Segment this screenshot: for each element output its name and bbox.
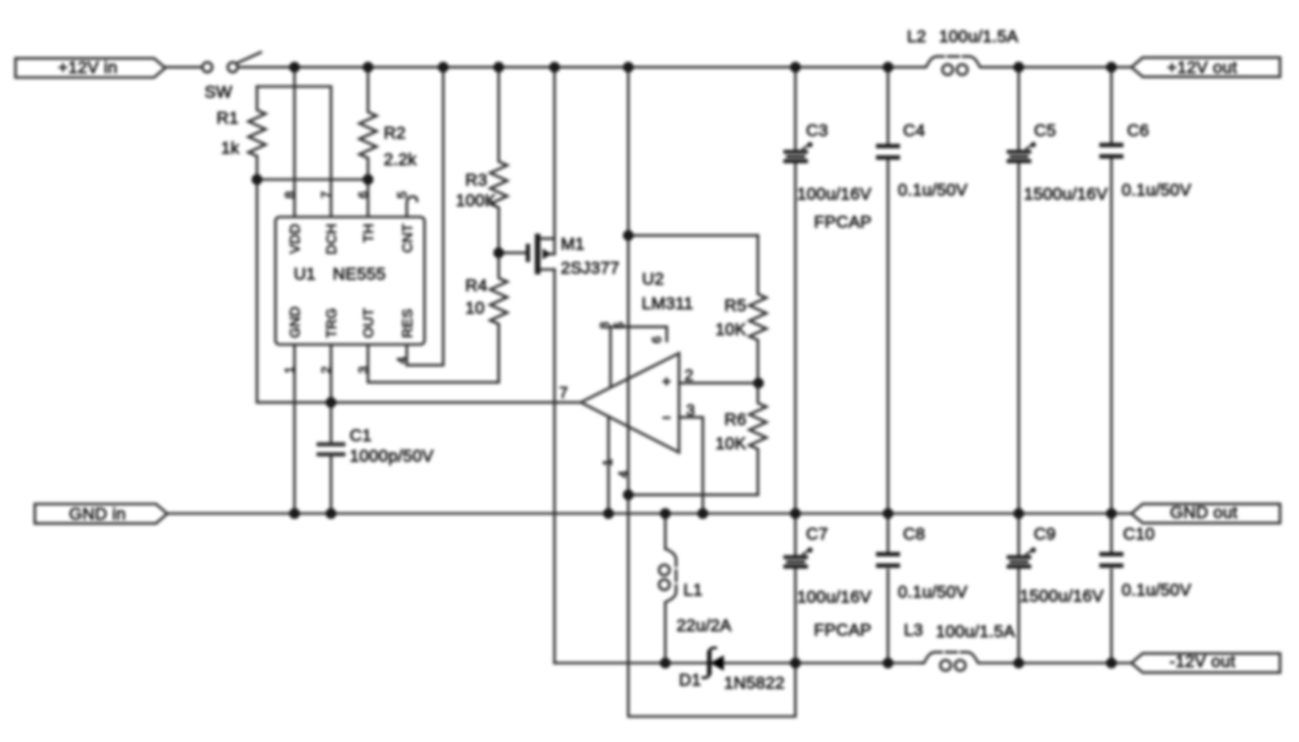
wire R5 top xyxy=(628,234,758,237)
wire R1 bottom down to trigger line xyxy=(257,180,581,403)
pin5 CNT hook xyxy=(407,197,417,218)
op-amp pin3 wire to GND xyxy=(679,417,703,513)
wire pin3 OUT to R4 bottom xyxy=(368,325,499,382)
svg-text:5: 5 xyxy=(394,191,409,198)
svg-text:U1: U1 xyxy=(294,265,316,284)
op-amp V+ / V- vertical (top rail to -12V loop) xyxy=(628,67,795,716)
capacitor C5 column xyxy=(1017,67,1020,150)
connector -12V out xyxy=(1131,653,1280,672)
junction dot R6 bottom xyxy=(623,489,634,500)
svg-text:10K: 10K xyxy=(715,434,746,453)
svg-text:1: 1 xyxy=(282,366,297,373)
capacitor C6 plates xyxy=(1099,143,1123,147)
svg-text:1000p/50V: 1000p/50V xyxy=(350,447,435,466)
svg-text:22u/2A: 22u/2A xyxy=(677,616,733,635)
svg-text:C4: C4 xyxy=(903,121,925,140)
svg-text:TRG: TRG xyxy=(323,308,339,338)
inductor L2 xyxy=(924,56,980,67)
capacitor C7 plates (FPCAP) xyxy=(783,555,808,559)
wire pin8 VDD column xyxy=(293,67,296,217)
svg-text:8: 8 xyxy=(282,191,297,198)
svg-text:FPCAP: FPCAP xyxy=(814,621,872,640)
svg-text:0.1u/50V: 0.1u/50V xyxy=(898,583,968,602)
wire R6 bottom xyxy=(628,493,758,496)
IC U1 NE555 body xyxy=(276,217,425,345)
diode D1 xyxy=(707,653,711,674)
svg-text:1500u/16V: 1500u/16V xyxy=(1020,587,1105,606)
svg-text:5: 5 xyxy=(612,322,627,329)
svg-text:0.1u/50V: 0.1u/50V xyxy=(898,181,968,200)
svg-text:100K: 100K xyxy=(456,191,497,210)
capacitor C5 polarity tick xyxy=(1025,144,1034,150)
capacitor C1 xyxy=(330,402,333,442)
svg-text:OUT: OUT xyxy=(360,308,376,338)
svg-text:C6: C6 xyxy=(1127,121,1149,140)
svg-text:1N5822: 1N5822 xyxy=(724,674,785,693)
svg-text:2: 2 xyxy=(685,368,694,385)
svg-text:L2: L2 xyxy=(907,27,926,46)
junction dots GND rail xyxy=(289,508,300,519)
wire R1 top to pin7 xyxy=(257,87,331,218)
svg-text:C8: C8 xyxy=(903,525,925,544)
capacitor C8 plates xyxy=(876,552,900,556)
wire R1 bottom to R2 bottom xyxy=(257,178,368,181)
svg-text:1500u/16V: 1500u/16V xyxy=(1024,185,1109,204)
svg-text:C5: C5 xyxy=(1034,121,1056,140)
svg-text:10: 10 xyxy=(465,299,484,318)
svg-text:L1: L1 xyxy=(683,581,702,600)
svg-text:TH: TH xyxy=(360,224,376,243)
capacitor C8 column xyxy=(887,514,890,553)
svg-text:R1: R1 xyxy=(217,109,239,128)
capacitor C7 polarity tick xyxy=(802,549,811,555)
capacitor C10 plates xyxy=(1099,552,1123,556)
capacitor C9 tick arrowhead xyxy=(1031,547,1036,552)
op-amp pin1 to GND xyxy=(607,417,610,514)
capacitor C9 plates (FPCAP) xyxy=(1007,555,1031,559)
svg-text:C10: C10 xyxy=(1123,525,1155,544)
wire pin4 RES to rail xyxy=(407,67,443,365)
connector +12V in xyxy=(16,58,166,77)
inductor L3 xyxy=(922,652,978,663)
svg-text:1: 1 xyxy=(600,459,615,466)
svg-text:CNT: CNT xyxy=(399,223,415,253)
svg-text:2: 2 xyxy=(319,366,334,373)
svg-text:LM311: LM311 xyxy=(642,294,694,313)
resistor R5 xyxy=(749,235,766,383)
svg-text:R2: R2 xyxy=(384,124,406,143)
svg-text:GND in: GND in xyxy=(69,505,126,524)
svg-text:R6: R6 xyxy=(724,410,746,429)
junction dot R5 top xyxy=(623,230,634,241)
svg-text:0.1u/50V: 0.1u/50V xyxy=(1122,581,1192,600)
svg-text:SW: SW xyxy=(205,83,233,102)
capacitor C6 column xyxy=(1110,67,1113,143)
capacitor C7 column xyxy=(794,514,797,556)
svg-text:7: 7 xyxy=(559,385,568,402)
op-amp top balance stubs xyxy=(611,327,667,387)
resistor R6 xyxy=(749,383,766,495)
capacitor C3 column xyxy=(794,67,797,150)
capacitor C3 polarity tick xyxy=(802,144,811,150)
op-amp pin2 wire xyxy=(679,382,758,385)
svg-text:1k: 1k xyxy=(221,139,240,158)
transistor M1 body arrow xyxy=(543,248,552,259)
junction dot gate node xyxy=(493,247,504,258)
capacitor C4 plates xyxy=(876,144,900,148)
capacitor C5 tick arrowhead xyxy=(1031,142,1036,147)
connector GND in xyxy=(35,504,168,523)
svg-text:10K: 10K xyxy=(715,320,746,339)
svg-text:M1: M1 xyxy=(561,235,585,254)
junction dots top rail xyxy=(289,62,300,73)
svg-text:R3: R3 xyxy=(465,171,487,190)
svg-text:6: 6 xyxy=(649,336,664,343)
svg-text:FPCAP: FPCAP xyxy=(814,213,872,232)
inductor L1 xyxy=(664,514,667,550)
svg-text:100u/16V: 100u/16V xyxy=(797,588,872,607)
svg-text:+12V in: +12V in xyxy=(58,58,118,77)
svg-text:R5: R5 xyxy=(724,296,746,315)
capacitor C4 column xyxy=(887,67,890,144)
capacitor C5 plates (FPCAP) xyxy=(1007,150,1031,154)
connector GND out xyxy=(1131,504,1280,523)
svg-text:L3: L3 xyxy=(904,621,923,640)
svg-text:2.2k: 2.2k xyxy=(384,150,417,169)
junction dot trigger line pin2 xyxy=(326,397,337,408)
svg-text:NE555: NE555 xyxy=(333,265,386,284)
svg-text:C9: C9 xyxy=(1034,525,1056,544)
svg-text:100u/1.5A: 100u/1.5A xyxy=(939,27,1019,46)
connector +12V out xyxy=(1131,58,1280,77)
svg-text:GND out: GND out xyxy=(1170,503,1238,522)
capacitor C3 tick arrowhead xyxy=(807,142,812,147)
svg-text:3: 3 xyxy=(356,366,371,373)
svg-text:C1: C1 xyxy=(350,426,372,445)
resistor R1 xyxy=(249,87,266,180)
svg-text:DCH: DCH xyxy=(323,224,339,255)
svg-text:2SJ377: 2SJ377 xyxy=(561,259,620,278)
capacitor C3 plates (FPCAP) xyxy=(783,150,808,154)
op-amp U2 LM311 triangle xyxy=(581,353,679,452)
resistor R3 xyxy=(490,67,507,253)
junction dots -12V rail xyxy=(660,658,671,669)
transistor M1 gate bar xyxy=(526,244,530,262)
capacitor C9 polarity tick xyxy=(1025,549,1034,555)
svg-text:C7: C7 xyxy=(806,525,828,544)
svg-text:R4: R4 xyxy=(465,276,487,295)
svg-text:4: 4 xyxy=(394,357,409,364)
resistor R2 xyxy=(360,67,377,179)
svg-text:GND: GND xyxy=(287,306,303,338)
svg-text:100u/16V: 100u/16V xyxy=(797,185,872,204)
capacitor C10 column xyxy=(1110,514,1113,553)
resistor R4 xyxy=(490,253,507,382)
svg-text:VDD: VDD xyxy=(287,224,303,254)
svg-text:6: 6 xyxy=(356,191,371,198)
svg-text:3: 3 xyxy=(686,403,695,420)
transistor M1 channel bar xyxy=(535,234,541,275)
wire top rail xyxy=(165,66,202,69)
switch SW xyxy=(202,62,212,72)
junction dot R1/R2 bottoms xyxy=(252,174,263,185)
capacitor C9 column xyxy=(1017,514,1020,556)
svg-text:RES: RES xyxy=(399,309,415,338)
svg-text:0.1u/50V: 0.1u/50V xyxy=(1122,181,1192,200)
svg-text:7: 7 xyxy=(319,191,334,198)
svg-text:4: 4 xyxy=(616,471,631,478)
wire pin6 TH column xyxy=(367,180,370,218)
wire GND rail xyxy=(167,512,1131,515)
svg-text:-12V out: -12V out xyxy=(1170,652,1236,671)
wire pin2 TRG column xyxy=(330,345,333,403)
wire pin1 GND column xyxy=(293,345,296,514)
wire -12V rail xyxy=(555,662,924,665)
svg-text:C3: C3 xyxy=(806,121,828,140)
op-amp minus input marker xyxy=(663,417,671,419)
capacitor C7 tick arrowhead xyxy=(807,547,812,552)
op-amp plus input marker xyxy=(663,378,671,386)
svg-text:U2: U2 xyxy=(642,270,664,289)
svg-text:100u/1.5A: 100u/1.5A xyxy=(936,622,1016,641)
junction dot op-amp pin2 xyxy=(753,378,764,389)
svg-text:8: 8 xyxy=(597,322,612,329)
transistor M1 wires xyxy=(499,252,526,255)
svg-text:+12V out: +12V out xyxy=(1167,58,1237,77)
svg-text:D1: D1 xyxy=(679,671,701,690)
